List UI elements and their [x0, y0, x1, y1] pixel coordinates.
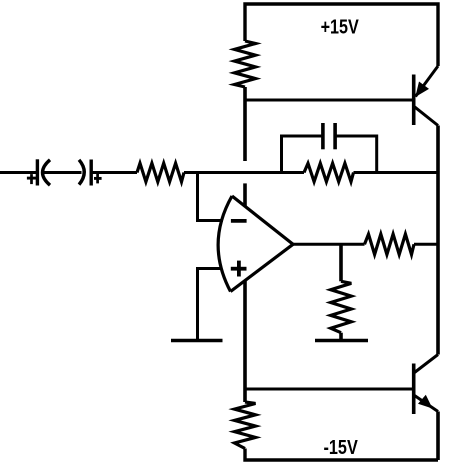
svg-text:-15V: -15V	[324, 436, 359, 459]
svg-text:+15V: +15V	[321, 16, 359, 39]
